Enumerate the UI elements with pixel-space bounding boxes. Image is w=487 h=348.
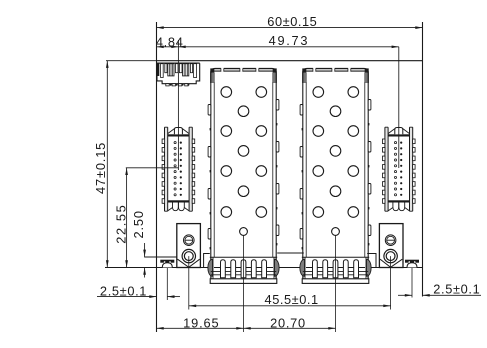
dimension 60±0.15 line bbox=[157, 27, 423, 29]
SFP cage 1 base right ear bbox=[275, 259, 280, 276]
dimension 2.5±0.1 right leader line bbox=[423, 294, 482, 296]
solder peg 1 head bar bbox=[160, 260, 174, 263]
svg-text:60±0.15: 60±0.15 bbox=[267, 14, 317, 29]
svg-text:4.84: 4.84 bbox=[156, 35, 184, 50]
SFP cage 1 corner tabs bbox=[212, 73, 215, 84]
housing line from 2.50 extension to mounting block 1 bbox=[144, 256, 177, 258]
SFP cage 1 base body bbox=[210, 256, 277, 258]
micro header 1 top wings bbox=[168, 129, 175, 134]
header connector body outline bbox=[157, 63, 200, 83]
mounting block 1 V notch bbox=[178, 259, 200, 267]
micro header 1 left rail bbox=[165, 127, 168, 211]
SFP cage 1 right wall bbox=[275, 83, 277, 279]
dimension 4.84 and 49.73 shared line bbox=[157, 46, 399, 48]
micro header 1 bottom crossbar bbox=[168, 200, 189, 202]
SFP cage 1 small bottom hole bbox=[240, 228, 248, 236]
header connector teeth bbox=[161, 64, 164, 78]
micro header 1 top crossbar bbox=[168, 134, 189, 136]
SFP cage 2 left wall bbox=[302, 83, 304, 279]
SFP cage 1 wall latch tabs bbox=[208, 105, 211, 116]
SFP cage 2 corner tabs bbox=[304, 73, 307, 84]
micro header 2 bottom bumps bbox=[393, 203, 399, 211]
mounting block 2 body bbox=[379, 224, 403, 268]
part outline left edge with dimension extension lines bbox=[156, 22, 158, 332]
dimension 2.5±0.1 left far-side arrow segment bbox=[167, 296, 180, 298]
centerline through micro header 2 bbox=[398, 47, 400, 168]
svg-text:2.5±0.1: 2.5±0.1 bbox=[433, 282, 480, 297]
SFP cage 2 vent holes bbox=[313, 87, 324, 98]
SFP cage 2 base right ear bbox=[367, 259, 372, 276]
dimension 2.50 line with outside arrows bbox=[144, 243, 146, 257]
part outline bottom edge seating plane with left extension bbox=[105, 267, 423, 269]
svg-text:20.70: 20.70 bbox=[270, 316, 306, 331]
mounting block 2 upper hole bbox=[385, 235, 396, 246]
micro header 1 top tower bbox=[174, 128, 182, 135]
micro header 1 bottom bumps bbox=[173, 203, 179, 211]
SFP cage 1 corner blocks bbox=[210, 68, 214, 72]
SFP cage 1 vent holes bbox=[221, 87, 232, 98]
header connector bottom notches bbox=[166, 84, 169, 86]
micro header 1 bottom wings bbox=[168, 208, 173, 211]
svg-text:2.50: 2.50 bbox=[131, 210, 146, 238]
SFP cage 2 base left ear bbox=[300, 259, 305, 276]
SFP cage 2 base body bbox=[302, 256, 369, 258]
SFP cage 2 small bottom hole bbox=[332, 228, 340, 236]
housing line between cage 1 and cage 2 bbox=[277, 252, 304, 254]
micro header 1 side teeth bbox=[162, 139, 165, 144]
dimension 45.5±0.1 line bbox=[189, 305, 391, 307]
SFP cage 2 wall latch tabs bbox=[300, 105, 303, 116]
solder peg 1 dome bbox=[162, 263, 172, 268]
solder peg 1 centerline extension bbox=[166, 268, 168, 301]
svg-text:22.55: 22.55 bbox=[114, 204, 129, 244]
housing jog between mounting block 1 and cage 1 bbox=[204, 254, 210, 268]
solder peg 2 dome bbox=[407, 263, 417, 268]
svg-text:49.73: 49.73 bbox=[269, 33, 310, 48]
SFP cage 2 right wall bbox=[367, 83, 369, 279]
solder peg 2 centerline extension bbox=[411, 268, 413, 298]
SFP cage 2 corner blocks bbox=[302, 68, 306, 72]
dimension 2.5±0.1 right far-side arrow segment bbox=[398, 294, 412, 296]
housing jog between cage 2 and mounting block 2 bbox=[367, 254, 376, 268]
SFP cage 1 centerline bbox=[243, 236, 245, 333]
micro header 2 right rail bbox=[410, 127, 413, 211]
header connector bottom pins bbox=[170, 84, 172, 86]
SFP cage 1 base pins bbox=[221, 260, 226, 278]
mounting block 1 body bbox=[177, 224, 201, 268]
micro header 2 bottom wings bbox=[388, 208, 393, 211]
part outline top edge bbox=[157, 60, 423, 62]
micro header 1 pin grid bbox=[174, 142, 176, 144]
micro header 2 bottom crossbar bbox=[388, 200, 409, 202]
centerline through header connector and micro header 1 bbox=[177, 40, 179, 170]
svg-text:2.5±0.1: 2.5±0.1 bbox=[100, 283, 147, 298]
dimension 47±0.15 top extension bbox=[106, 60, 157, 62]
dimension 22.55 extension to micro header 1 center bbox=[126, 167, 179, 169]
SFP cage 1 top edge bbox=[211, 69, 276, 83]
svg-text:19.65: 19.65 bbox=[183, 316, 219, 331]
SFP cage 1 left wall bbox=[210, 83, 212, 279]
micro header 2 top wings bbox=[388, 129, 395, 134]
header connector top bar bbox=[157, 62, 200, 64]
micro header 2 side teeth bbox=[383, 139, 386, 144]
mounting block 2 centerline extension bbox=[390, 256, 392, 309]
mounting block 2 V notch bbox=[380, 259, 402, 267]
mounting block 1 upper hole bbox=[184, 235, 195, 246]
mounting block 1 lower hole bbox=[182, 249, 195, 262]
part outline right edge with dimension extension lines bbox=[422, 22, 424, 297]
solder peg 2 head bar bbox=[405, 260, 419, 263]
dimension 19.65 line bbox=[157, 327, 244, 329]
svg-text:45.5±0.1: 45.5±0.1 bbox=[265, 292, 319, 307]
header connector left end block bbox=[157, 64, 159, 77]
dimension 2.5±0.1 left leader line bbox=[97, 296, 157, 298]
SFP cage 2 base pins bbox=[313, 260, 318, 278]
mounting block 2 lower hole bbox=[384, 249, 397, 262]
micro header 2 left rail bbox=[385, 127, 388, 211]
SFP cage 1 base bottom plate bbox=[210, 279, 277, 284]
dimension 47±0.15 line bbox=[106, 61, 108, 268]
SFP cage 2 base bottom plate bbox=[302, 279, 369, 284]
dimension 20.70 line bbox=[244, 327, 336, 329]
SFP cage 2 top edge bbox=[303, 69, 368, 83]
SFP cage 2 centerline bbox=[335, 236, 337, 333]
micro header 2 pin grid bbox=[394, 142, 396, 144]
dimension 22.55 line bbox=[126, 168, 128, 268]
micro header 1 right rail bbox=[189, 127, 192, 211]
mounting block 1 centerline extension bbox=[188, 256, 190, 309]
SFP cage 1 base left ear bbox=[208, 259, 213, 276]
micro header 2 top crossbar bbox=[388, 134, 409, 136]
micro header 2 top tower bbox=[395, 128, 403, 135]
svg-text:47±0.15: 47±0.15 bbox=[93, 142, 108, 194]
